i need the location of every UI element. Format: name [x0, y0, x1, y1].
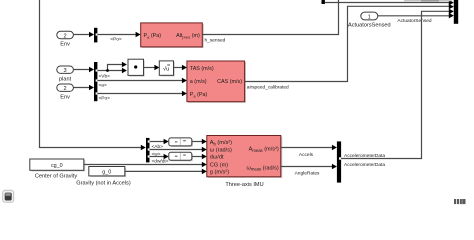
svg-text:<Po>: <Po> — [110, 36, 122, 42]
svg-text:2: 2 — [64, 33, 67, 39]
svg-text:<a>: <a> — [99, 82, 107, 88]
block Three-axis IMU (pink) — [207, 136, 282, 188]
wire long feedback riser to Three-axis IMU bus selector — [40, 0, 146, 150]
block Calibrated Airspeed (pink) — [187, 61, 246, 103]
svg-text:<dw/dt>: <dw/dt> — [152, 159, 169, 165]
svg-text:ωmeas (rad/s): ωmeas (rad/s) — [246, 165, 278, 171]
wire <Po> BS1 to Pressure Altitude block — [97, 32, 140, 43]
block dot product — [128, 59, 145, 76]
wire <w> BS3 direct to IMU omega input — [150, 147, 207, 158]
wire airspeed_calibrated CAS output to top bus creator — [245, 4, 454, 91]
wire <Ab> BS3 to rate transition A — [150, 139, 169, 150]
wire plant3 to bus selector BS2 — [73, 67, 94, 73]
svg-text:<Vb>: <Vb> — [99, 73, 111, 79]
svg-text:ActuatorSensed: ActuatorSensed — [397, 18, 431, 24]
svg-text:Env: Env — [60, 95, 70, 101]
annotation icon (database button, bottom-left) — [3, 190, 14, 202]
svg-text:dω/dt: dω/dt — [210, 155, 224, 161]
bus selector BS3 — [146, 138, 150, 163]
svg-text:Ameas (m/s²): Ameas (m/s²) — [249, 147, 279, 153]
svg-text:ω (rad/s): ω (rad/s) — [210, 147, 232, 153]
svg-text:Gravity (not in Accels): Gravity (not in Accels) — [76, 180, 131, 186]
block sqrt — [159, 61, 174, 77]
svg-text:Center of Gravity: Center of Gravity — [35, 173, 77, 179]
wire sqrt to CAS block TAS input — [174, 65, 187, 71]
bus creator BC-top-right — [454, 0, 458, 24]
wire g_0 to IMU g input — [125, 169, 207, 175]
svg-text:AngleRates: AngleRates — [295, 170, 320, 176]
svg-text:plant: plant — [59, 77, 72, 83]
block rate transition B — [169, 152, 193, 161]
wire Env2 lower to bus selector BS2 — [73, 85, 94, 91]
wire rate transition B to IMU dw/dt input — [192, 154, 207, 160]
svg-text:Accels: Accels — [299, 152, 314, 158]
svg-text:1: 1 — [368, 14, 371, 20]
svg-text:<Po>: <Po> — [99, 95, 111, 101]
block Pressure Altitude (pink) — [141, 23, 204, 48]
svg-text:2: 2 — [64, 86, 67, 92]
wire <Vb> BS2 to dot product (with branch junction) — [97, 62, 127, 80]
svg-text:h_sensed: h_sensed — [205, 37, 226, 43]
svg-text:CAS (m/s): CAS (m/s) — [217, 79, 242, 85]
svg-text:√u: √u — [163, 65, 169, 72]
svg-text:AccelerometerData: AccelerometerData — [344, 153, 385, 159]
wire AngleRates IMU to bus creator BC2 — [281, 164, 337, 177]
svg-text:AccelerometerData: AccelerometerData — [344, 162, 385, 168]
svg-text:Three-axis IMU: Three-axis IMU — [225, 182, 263, 188]
svg-text:Altpres (m): Altpres (m) — [176, 33, 200, 39]
wire h_sensed from Pressure Altitude up off-screen — [202, 0, 338, 43]
block rate transition A — [169, 138, 193, 147]
bus selector BS1 — [94, 28, 97, 43]
svg-text:CG (m): CG (m) — [210, 163, 228, 169]
bus creator (cropped, top edge) — [322, 0, 325, 4]
bus selector BS2 — [94, 62, 97, 101]
inport plant (3) — [57, 66, 74, 83]
wire <Po> BS2 to CAS block — [97, 91, 186, 102]
inport Env (2) lower — [57, 84, 74, 101]
svg-text:Pa (Pa): Pa (Pa) — [190, 92, 208, 98]
svg-text:g (m/s²): g (m/s²) — [210, 170, 229, 176]
svg-text:Pa (Pa): Pa (Pa) — [144, 33, 162, 39]
svg-text:a (m/s): a (m/s) — [190, 79, 207, 85]
svg-text:Env: Env — [60, 42, 70, 48]
constant cg_0 — [30, 159, 85, 179]
wire rate transition A to IMU Ab input — [192, 139, 207, 145]
wire <a> BS2 to CAS block — [97, 78, 186, 89]
inport ActuatorsSensed (1) — [348, 12, 391, 28]
wire from cropped bus creator to top-right bus creator — [325, 0, 454, 5]
svg-text:TAS (m/s): TAS (m/s) — [190, 66, 214, 72]
svg-text:Ab (m/s²): Ab (m/s²) — [210, 140, 232, 146]
scroll grip (striped marker, bottom-right) — [454, 199, 466, 204]
wire AccelerometerData BC2 to top-right bus creator — [341, 9, 454, 169]
wire Env2 to bus selector BS1 — [73, 32, 94, 38]
wire Accels IMU to bus creator BC2 — [281, 145, 337, 158]
wire ActuatorSensed inport1 to top-right bus creator — [378, 13, 454, 24]
svg-text:airspeed_calibrated: airspeed_calibrated — [247, 85, 289, 91]
wire <dw/dt> BS3 to rate transition B — [150, 154, 169, 165]
inport Env (2) top — [57, 31, 74, 47]
svg-text:3: 3 — [64, 68, 67, 74]
bus creator BC2 — [337, 141, 341, 182]
svg-text:ActuatorsSensed: ActuatorsSensed — [348, 22, 391, 28]
constant g_0 — [76, 167, 131, 187]
wire dot product to sqrt — [144, 65, 160, 71]
wire cg_0 to IMU CG input — [84, 162, 207, 168]
svg-text:cg_0: cg_0 — [51, 163, 63, 169]
svg-text:g_0: g_0 — [102, 169, 111, 175]
